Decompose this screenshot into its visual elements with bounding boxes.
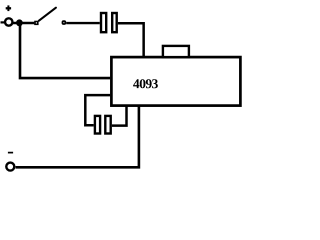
junction node A [16,19,23,26]
switch S1 lever [39,8,56,21]
capacitor C2 [95,116,111,134]
battery positive terminal lead stub [1,21,5,23]
wire positive rail to IC left pin [20,25,110,78]
wire junction to switch [13,22,34,24]
small box on top of IC [163,46,189,57]
wire capacitor C2 to IC bottom pin [112,105,127,126]
IC U1 4093 [111,57,240,106]
capacitor C1 [101,13,117,32]
wire IC bottom pin to negative rail [16,106,139,168]
wire IC left pin to capacitor C2 [85,95,110,125]
switch S1 contact 1 [35,22,38,25]
wire capacitor C1 to IC top [118,23,144,56]
battery negative terminal B1- [6,153,14,171]
wire switch to capacitor C1 [66,22,100,24]
switch S1 contact 2 [63,21,66,24]
battery positive terminal B1+ [5,5,12,25]
